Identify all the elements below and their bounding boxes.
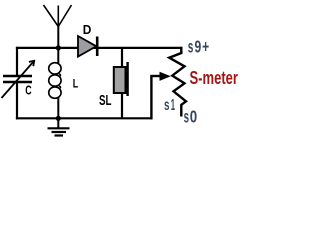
wiper arrowhead: [160, 72, 171, 81]
label SL: [99, 92, 112, 109]
wire top horizontal: [16, 47, 181, 49]
inductor L: [49, 48, 61, 119]
wire left vertical lower: [16, 82, 18, 119]
label C: [25, 83, 32, 98]
svg-text:L: L: [73, 77, 78, 91]
svg-text:s0: s0: [184, 107, 198, 127]
svg-text:s9+: s9+: [188, 36, 209, 56]
label L: [73, 77, 78, 91]
resistor S-meter zigzag: [169, 47, 186, 117]
label D: [83, 23, 92, 37]
label s0: [184, 107, 198, 127]
svg-text:S-meter: S-meter: [190, 67, 239, 88]
component SL: [114, 62, 128, 96]
wire left vertical upper: [16, 47, 18, 76]
node antenna junction: [56, 45, 61, 50]
antenna: [44, 5, 72, 48]
svg-text:SL: SL: [99, 92, 112, 109]
wire meter wiper riser: [150, 76, 161, 119]
svg-text:C: C: [25, 83, 32, 98]
ground: [48, 118, 70, 135]
label s9+: [188, 36, 209, 56]
wire SL branch vertical: [121, 48, 123, 118]
capacitor C (variable): [2, 61, 35, 98]
label s1: [164, 97, 175, 114]
svg-text:D: D: [83, 23, 92, 37]
label S-meter: [190, 67, 239, 88]
wire bottom horizontal: [16, 117, 153, 119]
diode D: [78, 36, 97, 57]
node bottom junction: [56, 116, 61, 121]
